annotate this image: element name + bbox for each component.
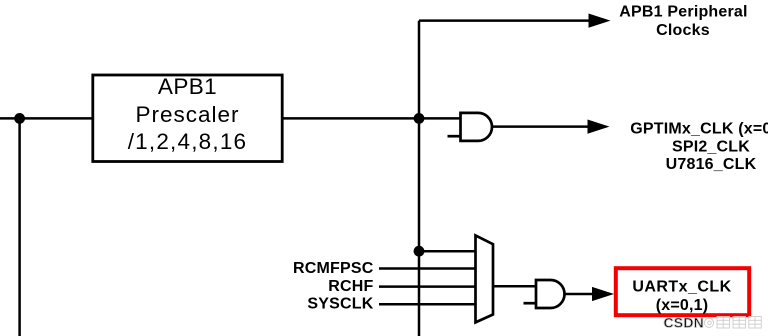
wire: RCHF input to mux xyxy=(379,285,476,288)
wire: left input into APB1 prescaler xyxy=(0,117,92,120)
wire: prescaler output to AND gate U1 xyxy=(283,117,461,120)
block: APB1 Prescaler box xyxy=(93,75,282,162)
wire: bus to mux top input xyxy=(419,250,476,253)
node: left junction dot xyxy=(14,113,25,124)
svg-text:(x=0,1): (x=0,1) xyxy=(656,297,709,314)
svg-text:SYSCLK: SYSCLK xyxy=(307,295,373,312)
wire: RCMFPSC input to mux xyxy=(379,267,476,270)
wire: SYSCLK input to mux xyxy=(379,303,476,306)
label: APB1 Peripheral Clocks xyxy=(619,4,747,40)
wire: top branch to APB1 peripheral clocks with arrowhead xyxy=(419,14,611,28)
label: GPTIMx_CLK / SPI2_CLK / U7816_CLK xyxy=(630,120,768,173)
svg-text:APB1: APB1 xyxy=(158,74,217,99)
svg-text:RCHF: RCHF xyxy=(328,278,373,295)
svg-text:Prescaler: Prescaler xyxy=(135,102,239,127)
label: APB1 Prescaler /1,2,4,8,16 xyxy=(128,74,248,154)
svg-text:RCMFPSC: RCMFPSC xyxy=(293,260,374,277)
node: bus junction at mux input xyxy=(414,246,425,257)
svg-text:U7816_CLK: U7816_CLK xyxy=(666,156,757,173)
svg-text:/1,2,4,8,16: /1,2,4,8,16 xyxy=(128,129,248,154)
gate: AND gate U1 (GPTIM/SPI2/U7816 clock gate) xyxy=(461,113,492,141)
wire: enable stub of AND gate U1 xyxy=(448,135,460,138)
wire: vertical APB1 clock bus xyxy=(418,21,421,336)
svg-text:APB1 Peripheral: APB1 Peripheral xyxy=(619,4,747,21)
svg-text:SPI2_CLK: SPI2_CLK xyxy=(672,138,750,155)
wire: mux output to AND gate U2 xyxy=(493,285,536,288)
label: UARTx_CLK (x=0,1) xyxy=(632,278,731,314)
wire: AND gate U1 output with arrowhead xyxy=(492,120,610,134)
gate: AND gate U2 (UARTx clock gate) xyxy=(536,280,565,308)
wire: AND gate U2 output with arrowhead xyxy=(565,287,615,301)
watermark: CSDN @冷微雨 xyxy=(664,315,762,331)
mux: UART clock source multiplexer xyxy=(476,235,494,322)
svg-text:GPTIMx_CLK (x=0,1): GPTIMx_CLK (x=0,1) xyxy=(630,120,768,137)
svg-text:CSDN: CSDN xyxy=(664,315,704,331)
highlight: red box around UARTx_CLK xyxy=(616,268,749,315)
wire: enable stub of AND gate U2 xyxy=(524,302,536,305)
svg-text:UARTx_CLK: UARTx_CLK xyxy=(632,278,731,295)
node: bus junction at prescaler output xyxy=(414,113,425,124)
wire: left vertical branch going down xyxy=(18,118,21,336)
svg-text:Clocks: Clocks xyxy=(656,22,710,39)
